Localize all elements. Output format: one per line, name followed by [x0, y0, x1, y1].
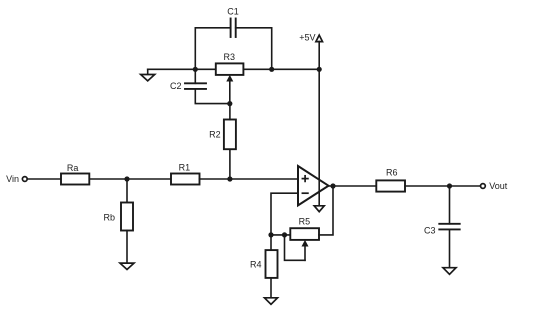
wire to Rb: [126, 179, 128, 203]
resistor R1: [171, 163, 200, 185]
potentiometer R5: [290, 217, 319, 261]
svg-text:Ra: Ra: [67, 163, 79, 173]
ground below R4: [265, 298, 278, 305]
wire R2 top to wiper node: [229, 104, 231, 120]
potentiometer R3: [216, 52, 244, 103]
wire R1 to op-amp plus input: [200, 178, 299, 180]
node wiper return junction: [282, 232, 287, 237]
resistor Ra: [61, 163, 89, 185]
svg-text:R5: R5: [299, 217, 311, 227]
wire C2 bottom to wiper node: [195, 89, 230, 104]
svg-text:C1: C1: [227, 7, 239, 17]
wire junction to R5: [271, 234, 290, 236]
node Vout junction: [447, 183, 452, 188]
ground below op-amp: [314, 206, 324, 212]
resistor R2: [209, 120, 236, 150]
svg-text:C2: C2: [170, 81, 182, 91]
ground below Rb: [120, 263, 134, 269]
wire C2 top: [194, 69, 196, 83]
capacitor C1: [227, 7, 239, 38]
wire R5 right to output: [319, 186, 333, 235]
node wiper junction: [227, 101, 232, 106]
node top-left junction: [193, 67, 198, 72]
wire R3 right to +5V rail: [243, 68, 319, 70]
svg-text:Vin: Vin: [6, 174, 19, 184]
wire junction to R4: [270, 235, 272, 250]
wire R2 bottom: [229, 149, 231, 179]
wire op-amp output to R6: [329, 185, 377, 187]
power +5V: [299, 32, 322, 42]
wire R5 wiper return: [285, 235, 306, 260]
wire Rb to ground: [126, 231, 128, 264]
resistor Rb: [103, 203, 133, 231]
op-amp U1: [298, 166, 329, 205]
wire C1 right: [236, 28, 272, 70]
capacitor C3: [424, 224, 460, 236]
wire R6 to Vout: [405, 185, 481, 187]
node feedback junction: [268, 232, 273, 237]
node output junction: [330, 183, 335, 188]
wire C1 left: [195, 28, 230, 70]
svg-text:+5V: +5V: [299, 32, 315, 42]
resistor R4: [250, 250, 278, 278]
wire +5V rail down: [318, 42, 320, 206]
svg-text:R6: R6: [386, 168, 398, 178]
svg-text:Rb: Rb: [103, 212, 115, 222]
wire op-amp minus input: [271, 193, 298, 235]
ground top-left: [141, 69, 155, 81]
node R2 junction: [227, 176, 232, 181]
svg-text:C3: C3: [424, 226, 436, 236]
resistor R6: [376, 168, 405, 192]
wire C3 to ground: [449, 229, 451, 267]
svg-text:R1: R1: [179, 163, 191, 173]
terminal Vin: [6, 174, 27, 184]
wire ground to R3 left: [148, 68, 216, 70]
node +5V junction: [317, 67, 322, 72]
svg-text:R4: R4: [250, 260, 262, 270]
capacitor C2: [170, 81, 206, 91]
wire Ra to R1: [89, 178, 171, 180]
svg-text:R3: R3: [224, 52, 236, 62]
terminal Vout: [481, 181, 508, 191]
svg-text:Vout: Vout: [489, 181, 508, 191]
node Rb junction: [124, 176, 129, 181]
node R3 right junction: [269, 67, 274, 72]
wire Vout node to C3: [449, 186, 451, 224]
ground below C3: [443, 268, 456, 275]
wire R4 to ground: [270, 278, 272, 298]
svg-text:R2: R2: [209, 130, 221, 140]
wire Vin to Ra: [27, 178, 61, 180]
